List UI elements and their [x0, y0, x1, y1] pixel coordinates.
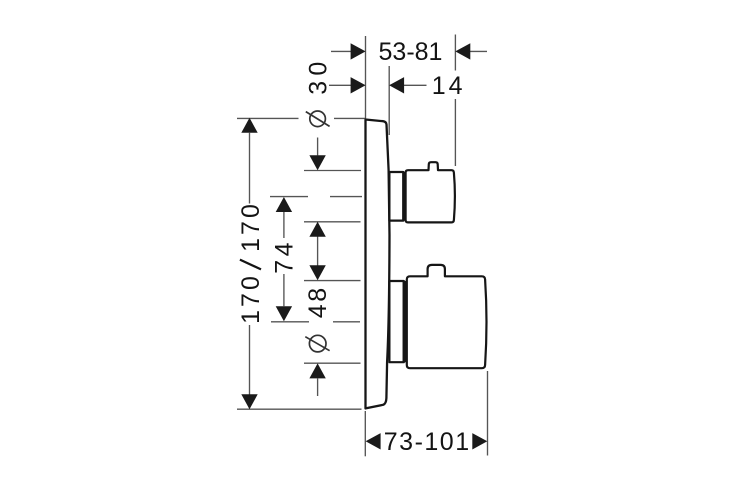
svg-text:30: 30 [304, 56, 332, 94]
wire centerline knob2 left [271, 321, 309, 323]
sleeve-knob gap bottom [403, 281, 407, 362]
svg-text:14: 14 [432, 72, 466, 100]
svg-text:53-81: 53-81 [379, 38, 443, 66]
wire ext top of plate y118 right [334, 117, 365, 119]
wire dim 14 left line [329, 84, 351, 86]
arrow 14 left [351, 77, 366, 93]
wire dim 74 upper stem [283, 212, 285, 238]
wire ext vertical x455 upper [454, 35, 456, 71]
wire dim 170/170 upper stem [249, 133, 251, 204]
wire ext sleeve2 top y280 [304, 280, 361, 282]
wire ext sleeve1 bottom y221 [304, 221, 361, 223]
arrow 53-81 right [455, 43, 470, 59]
arrow O48 up [309, 363, 325, 378]
wire ext sleeve2 bottom y363 [304, 362, 361, 364]
knob bottom (volume handle) [407, 265, 487, 368]
arrow 74 bottom [276, 306, 292, 321]
wire centerline knob1 left [270, 196, 308, 198]
arrow 170/170 top [241, 118, 257, 133]
wire ext vertical x365 top [365, 36, 367, 119]
arrow 74 top [276, 197, 292, 212]
wire dim O30 upper stem [317, 138, 319, 156]
wall plate [366, 120, 390, 409]
wire ext sleeve1 top y170 [304, 170, 361, 172]
arrow 73-101 left [366, 433, 381, 449]
sleeve top [389, 172, 403, 221]
diameter symbol bottom [309, 335, 326, 352]
wire ext vertical x389 [388, 66, 390, 135]
svg-text:170: 170 [237, 201, 265, 252]
wire ext vertical x455 lower [454, 99, 456, 166]
wire dim O48 lower stem [317, 379, 319, 397]
arrow 170/170 bottom [241, 394, 257, 409]
arrow O30 down [309, 155, 325, 170]
arrow O30 up outside [309, 222, 325, 237]
wire centerline knob1 right [330, 196, 362, 198]
wire dim 53-81 left line [331, 50, 351, 52]
slash of 170/170 label [240, 260, 261, 270]
svg-text:170: 170 [237, 273, 265, 324]
svg-text:73-101: 73-101 [384, 428, 471, 456]
sleeve bottom [389, 281, 403, 362]
arrow 14 right [389, 77, 404, 93]
svg-text:48: 48 [304, 285, 332, 318]
wire centerline knob2 right [333, 321, 360, 323]
wire ext top of plate y118 left [237, 117, 299, 119]
diameter symbol top [310, 111, 326, 127]
arrow 73-101 right [472, 433, 487, 449]
wire dim O30/O48 middle stem [317, 237, 319, 266]
knob top (temperature handle) [406, 162, 455, 222]
svg-text:74: 74 [270, 239, 298, 274]
wire ext bottom of plate y409 [237, 408, 362, 410]
arrow O48 down outside [309, 265, 325, 280]
wire ext vertical x487 bottom [487, 371, 489, 456]
wire dim 74 lower stem [283, 274, 285, 306]
wire dim 14 right line [404, 84, 427, 86]
wire dim 170/170 lower stem [249, 325, 251, 395]
wire dim 53-81 right line [470, 50, 487, 52]
wire ext vertical x365 bottom [364, 411, 366, 456]
sleeve-knob gap top [402, 172, 406, 221]
arrow 53-81 left [351, 43, 366, 59]
